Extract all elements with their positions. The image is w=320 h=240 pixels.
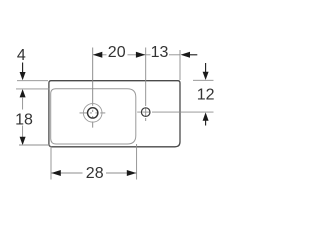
label 20 mask [107, 45, 128, 59]
arrow right of 20 [136, 52, 146, 58]
tap hole circle [141, 108, 150, 117]
dim 12 down arrow [203, 72, 209, 80]
drain hole outer circle [83, 104, 102, 123]
dim 12 top extension line [193, 79, 214, 81]
dim 28 line [51, 172, 137, 174]
label 13 mask [151, 45, 170, 59]
drain horizontal centerline [80, 112, 106, 114]
arrow left of 20 [93, 52, 103, 58]
dim 12 upper stem [205, 63, 207, 72]
dim 28 left arrow [51, 170, 61, 176]
tap vertical centerline [145, 48, 147, 122]
dim 12 bottom extension line [163, 111, 214, 113]
extension line right edge (top) [179, 50, 181, 80]
svg-text:4: 4 [17, 47, 26, 64]
basin outer rim outline [49, 81, 180, 147]
drain hole ring [88, 108, 98, 118]
extension line inner bowl top extended [16, 88, 49, 90]
dim 4 upper stem [22, 63, 24, 73]
tap horizontal centerline [137, 111, 163, 113]
dimension line 13 (stem between tap line and right edge) [146, 54, 180, 56]
label 18 mask [13, 110, 34, 126]
dim 12 up arrow [203, 112, 209, 120]
dim 18 up arrow [20, 89, 26, 97]
svg-text:13: 13 [151, 44, 169, 61]
extension line bottom-left [19, 144, 50, 146]
dim 28 right extension [136, 144, 138, 180]
basin inner bowl outline [51, 89, 136, 144]
drain vertical centerline [92, 48, 94, 128]
label 28 mask [83, 165, 107, 180]
extension line top-left (outer rim top extended) [17, 80, 48, 82]
arrow outside right for 13 [181, 52, 191, 58]
dim 28 left extension [50, 146, 52, 180]
dim 18 down arrow [20, 137, 26, 145]
dim 18 stem [22, 97, 24, 138]
svg-text:20: 20 [108, 44, 126, 61]
dim 28 right arrow [127, 170, 137, 176]
svg-text:18: 18 [15, 112, 33, 129]
dim 12 lower stem [205, 121, 207, 126]
dimension line 20 [93, 54, 146, 56]
svg-text:28: 28 [86, 165, 104, 182]
svg-text:12: 12 [197, 87, 215, 104]
dim 4 down arrow [20, 72, 26, 80]
